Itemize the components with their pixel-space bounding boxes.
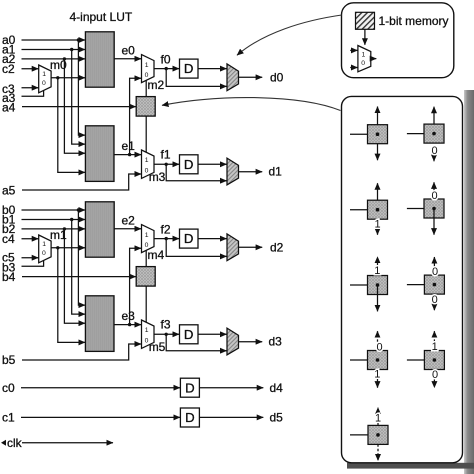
svg-text:c0: c0 — [2, 381, 15, 395]
svg-text:m5: m5 — [149, 340, 166, 354]
svg-text:a5: a5 — [2, 184, 16, 198]
svg-text:1: 1 — [432, 341, 438, 353]
svg-text:a4: a4 — [2, 101, 16, 115]
svg-text:0: 0 — [432, 294, 438, 306]
svg-text:d5: d5 — [270, 411, 284, 425]
svg-text:0: 0 — [376, 342, 382, 354]
svg-text:e1: e1 — [122, 139, 136, 153]
svg-text:f2: f2 — [161, 223, 171, 237]
svg-text:D: D — [185, 410, 195, 425]
svg-text:0: 0 — [431, 145, 437, 157]
svg-text:0: 0 — [432, 266, 438, 278]
svg-text:e2: e2 — [122, 213, 136, 227]
svg-text:f3: f3 — [161, 318, 171, 332]
svg-text:c1: c1 — [2, 411, 15, 425]
svg-text:D: D — [185, 380, 195, 395]
svg-text:1: 1 — [145, 62, 149, 69]
svg-text:1: 1 — [374, 265, 380, 277]
svg-text:1: 1 — [145, 157, 149, 164]
svg-text:0: 0 — [361, 60, 365, 67]
svg-text:1: 1 — [374, 218, 380, 230]
svg-text:m2: m2 — [148, 78, 165, 92]
svg-text:c2: c2 — [2, 62, 15, 76]
svg-text:1: 1 — [362, 52, 366, 59]
svg-text:e3: e3 — [122, 309, 136, 323]
svg-text:0: 0 — [431, 190, 437, 202]
svg-text:b4: b4 — [2, 270, 16, 284]
svg-text:0: 0 — [42, 80, 46, 87]
svg-text:b5: b5 — [2, 353, 16, 367]
svg-text:m4: m4 — [148, 248, 165, 262]
svg-text:f0: f0 — [161, 53, 171, 67]
svg-text:4-input LUT: 4-input LUT — [70, 10, 133, 24]
svg-text:c4: c4 — [2, 232, 15, 246]
svg-text:d4: d4 — [270, 381, 284, 395]
svg-text:d3: d3 — [269, 335, 283, 349]
svg-text:0: 0 — [432, 369, 438, 381]
svg-text:1: 1 — [42, 71, 46, 78]
svg-text:e0: e0 — [122, 43, 136, 57]
svg-text:D: D — [184, 61, 194, 76]
svg-text:D: D — [184, 157, 194, 172]
svg-text:1-bit memory: 1-bit memory — [379, 14, 449, 28]
svg-text:d0: d0 — [270, 70, 284, 84]
svg-text:d1: d1 — [269, 165, 283, 179]
svg-text:d2: d2 — [270, 240, 284, 254]
svg-text:1: 1 — [375, 413, 381, 425]
svg-text:m1: m1 — [50, 228, 67, 242]
svg-text:m3: m3 — [149, 170, 166, 184]
svg-text:clk: clk — [7, 436, 23, 450]
svg-text:f1: f1 — [161, 148, 171, 162]
svg-text:m0: m0 — [50, 58, 67, 72]
svg-text:1: 1 — [374, 368, 380, 380]
